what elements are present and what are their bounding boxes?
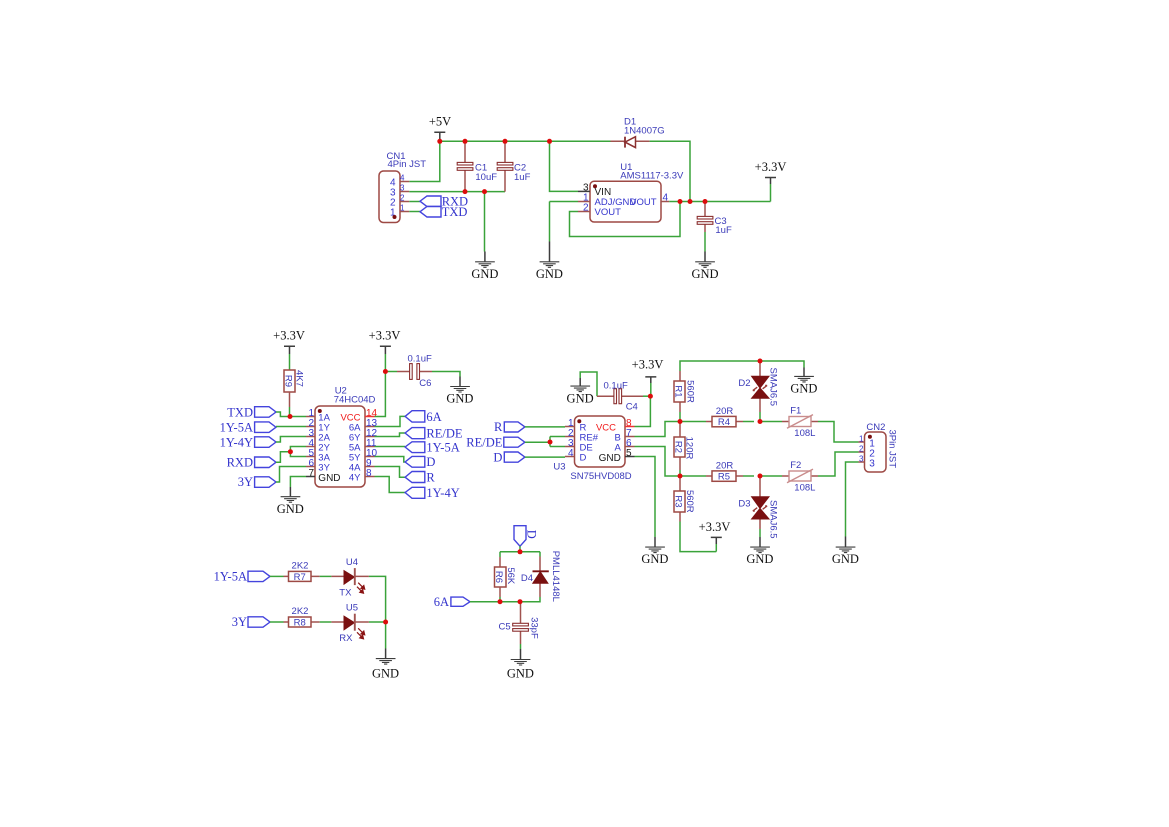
resistor R6 56K <box>493 557 516 602</box>
net flag RXD (U2) <box>227 456 276 470</box>
svg-text:R8: R8 <box>294 618 306 629</box>
resistor R2 120R <box>673 422 695 477</box>
ground U3 <box>641 537 668 566</box>
wire row1 D2 to F1 <box>760 421 782 423</box>
svg-text:C5: C5 <box>499 621 511 632</box>
net flag 1Y-4Y (U2 in) <box>220 435 276 449</box>
svg-text:+5V: +5V <box>429 115 451 129</box>
wire 1Y-4Y to pin3 <box>276 437 306 443</box>
ground U1 adj <box>536 242 563 282</box>
junction <box>758 419 763 424</box>
resistor R7 2K2 <box>284 561 320 583</box>
resistor R5 20R <box>706 460 754 482</box>
net flag 3Y (LED) <box>232 615 270 629</box>
capacitor C5 33pF <box>499 602 540 644</box>
diode D1 1N4007G <box>611 117 665 148</box>
capacitor C1 10uF <box>457 141 497 191</box>
junction <box>503 139 508 144</box>
wire F2 to CN2 pin2 <box>818 452 859 476</box>
wire row1 left <box>680 421 706 423</box>
svg-text:GND: GND <box>277 502 304 516</box>
svg-text:PMLL4148L: PMLL4148L <box>550 551 561 602</box>
junction <box>547 139 552 144</box>
wire U3 pin7 B to row1 <box>635 422 681 437</box>
svg-text:F1: F1 <box>790 406 801 417</box>
svg-text:1uF: 1uF <box>715 225 732 236</box>
svg-text:20R: 20R <box>716 460 734 471</box>
svg-text:560R: 560R <box>685 380 696 403</box>
net flag D (U3) <box>493 450 525 464</box>
svg-text:74HC04D: 74HC04D <box>334 395 376 406</box>
svg-text:D2: D2 <box>738 378 750 389</box>
fuse F2 108L <box>782 460 818 494</box>
wire C4 to VCC node <box>643 395 650 397</box>
svg-text:+3.3V: +3.3V <box>699 520 731 534</box>
ground under caps <box>471 192 498 281</box>
wire pin8 to 1Y-4Y flag <box>375 477 406 493</box>
net flag 1Y-5A (LED) <box>214 570 270 584</box>
wire pin4 to node <box>290 447 306 457</box>
svg-text:2: 2 <box>400 194 405 203</box>
wire row2 D3 to F2 <box>760 475 782 477</box>
svg-text:+3.3V: +3.3V <box>755 160 787 174</box>
svg-text:4K7: 4K7 <box>293 370 304 387</box>
svg-text:GND: GND <box>641 552 668 566</box>
svg-text:6A: 6A <box>426 410 441 424</box>
svg-text:GND: GND <box>318 473 340 484</box>
net flag TXD (U2) <box>227 405 276 419</box>
power +5V <box>429 115 451 142</box>
junction <box>383 369 388 374</box>
junction <box>548 440 553 445</box>
svg-text:GND: GND <box>832 552 859 566</box>
svg-text:TXD: TXD <box>442 205 468 219</box>
svg-text:1Y-5A: 1Y-5A <box>220 421 253 435</box>
net flag RE/DE (U2 out) <box>405 426 463 440</box>
ground C3 <box>691 232 718 281</box>
junction <box>288 449 293 454</box>
wire CN1 pin2 <box>409 201 420 203</box>
svg-text:0.1uF: 0.1uF <box>408 353 432 364</box>
svg-text:R: R <box>426 470 435 484</box>
junction <box>758 359 763 364</box>
svg-text:GND: GND <box>372 667 399 681</box>
net flag 1Y-5A (U2 out) <box>405 440 460 454</box>
net flag 1Y-4Y (U2 out) <box>405 486 460 500</box>
svg-text:D: D <box>493 450 502 464</box>
wire TXD to U2 pin1 <box>276 412 306 417</box>
svg-text:1Y-4Y: 1Y-4Y <box>220 435 253 449</box>
wire pin9 to R flag <box>375 467 406 478</box>
svg-text:4: 4 <box>568 448 574 459</box>
wire 6A to node <box>470 601 520 603</box>
svg-text:C6: C6 <box>419 378 431 389</box>
svg-text:GND: GND <box>446 392 473 406</box>
junction <box>758 474 763 479</box>
svg-text:1Y-5A: 1Y-5A <box>426 440 459 454</box>
wire VCC node down to pin8 <box>635 396 651 426</box>
svg-text:SN75HVD08D: SN75HVD08D <box>570 471 631 482</box>
svg-text:SMAJ6.5: SMAJ6.5 <box>768 368 779 407</box>
wire C5 to ground <box>520 644 522 649</box>
svg-text:1Y-5A: 1Y-5A <box>214 570 247 584</box>
svg-text:1: 1 <box>400 204 405 213</box>
wire CN1 pin4 to +5V <box>409 141 440 181</box>
svg-text:GND: GND <box>567 391 594 405</box>
svg-text:R7: R7 <box>294 572 306 583</box>
svg-text:120R: 120R <box>684 437 695 460</box>
svg-text:TXD: TXD <box>227 405 253 419</box>
junction <box>437 139 442 144</box>
svg-text:33pF: 33pF <box>528 617 539 639</box>
svg-text:+3.3V: +3.3V <box>632 358 664 372</box>
capacitor C4 0.1uF <box>597 380 643 412</box>
wire U1 output rail <box>669 201 770 203</box>
svg-text:GND: GND <box>507 667 534 681</box>
svg-text:108L: 108L <box>794 428 815 439</box>
net flag R (U2 out) <box>405 470 435 484</box>
svg-text:D: D <box>426 455 435 469</box>
resistor R8 2K2 <box>284 606 320 628</box>
wire pin13 to 6A flag <box>375 416 406 426</box>
junction <box>288 414 293 419</box>
resistor R3 560R <box>673 476 717 552</box>
wire F1 to CN2 pin1 <box>818 422 859 443</box>
svg-text:3Pin JST: 3Pin JST <box>887 430 898 469</box>
junction <box>678 474 683 479</box>
svg-text:1: 1 <box>859 435 864 444</box>
wire U3 pin5 to ground <box>635 457 656 538</box>
svg-text:8: 8 <box>366 468 372 479</box>
svg-text:1Y-4Y: 1Y-4Y <box>426 486 459 500</box>
net flag R (U3) <box>494 420 525 434</box>
power +3.3V at U3 <box>632 358 664 397</box>
svg-text:4: 4 <box>663 193 669 204</box>
LED U4 TX <box>331 557 369 599</box>
svg-text:2K2: 2K2 <box>292 561 309 572</box>
wire 1Y-5A to pin2 <box>276 426 306 428</box>
svg-text:560R: 560R <box>684 490 695 513</box>
ground C5 <box>507 649 534 681</box>
net flag TXD <box>420 205 467 219</box>
svg-text:R: R <box>494 420 503 434</box>
svg-text:10uF: 10uF <box>475 172 497 183</box>
wire U5 to ground <box>369 622 386 649</box>
svg-text:U3: U3 <box>553 461 565 472</box>
svg-text:3: 3 <box>400 184 405 193</box>
power +3.3V at R3 <box>699 520 731 552</box>
net flag 6A (U2 out) <box>405 410 442 424</box>
ground top right <box>790 368 817 396</box>
wire R6/D4 top rail <box>500 552 540 557</box>
wire CN1 pin1 <box>409 211 420 213</box>
junction <box>498 599 503 604</box>
svg-text:RE/DE: RE/DE <box>426 426 462 440</box>
wire CN1 pin3 to cap rail <box>409 191 505 193</box>
svg-text:D3: D3 <box>738 498 750 509</box>
capacitor C3 1uF <box>697 202 732 237</box>
svg-text:C4: C4 <box>626 401 638 412</box>
wire pin12 to RE/DE flag <box>375 433 406 437</box>
svg-text:0.1uF: 0.1uF <box>604 380 628 391</box>
resistor R9 4K7 <box>282 370 304 407</box>
wire ADJ/GND branch down <box>550 202 579 242</box>
net flag 1Y-5A (U2 in) <box>220 421 276 435</box>
svg-text:GND: GND <box>790 382 817 396</box>
net flag D (down) <box>514 526 538 547</box>
svg-text:5: 5 <box>626 448 632 459</box>
junction <box>482 189 487 194</box>
net flag 6A (bottom) <box>434 595 470 609</box>
svg-text:RE/DE: RE/DE <box>466 435 502 449</box>
svg-text:GND: GND <box>691 267 718 281</box>
svg-text:R6: R6 <box>493 571 504 583</box>
junction <box>648 394 653 399</box>
wire 1Y-5A to R7 <box>270 575 284 577</box>
capacitor C2 1uF <box>497 141 530 191</box>
svg-text:2K2: 2K2 <box>292 606 309 617</box>
svg-text:+3.3V: +3.3V <box>369 329 401 343</box>
svg-text:4Pin JST: 4Pin JST <box>388 159 427 170</box>
wire U3 pin6 A to row2 <box>635 447 681 477</box>
junction <box>518 549 523 554</box>
wire 3Y to pin6 <box>276 467 306 483</box>
wire row2 left <box>680 475 706 477</box>
wire D1 cathode to U1 output node <box>650 141 690 201</box>
ground C6 <box>446 377 473 406</box>
ground D3 <box>746 537 773 566</box>
svg-text:GND: GND <box>471 267 498 281</box>
wire D to U3 pin4 <box>525 456 565 459</box>
svg-text:U5: U5 <box>346 603 358 614</box>
svg-text:4Y: 4Y <box>349 473 361 484</box>
wire C6 to ground <box>432 372 460 377</box>
IC U2 74HC04D <box>306 386 378 487</box>
wire R to U3 pin1 <box>525 426 565 428</box>
wire RE/DE split to pins 2,3 <box>525 437 565 447</box>
svg-text:7: 7 <box>308 468 314 479</box>
wire +5V rail <box>440 140 611 142</box>
svg-text:+3.3V: +3.3V <box>273 329 305 343</box>
svg-text:GND: GND <box>599 453 621 464</box>
junction <box>678 419 683 424</box>
svg-text:D: D <box>580 453 587 464</box>
svg-text:6A: 6A <box>434 595 449 609</box>
wire VCC drop to pin14 <box>375 372 386 417</box>
svg-text:20R: 20R <box>716 406 734 417</box>
svg-text:R4: R4 <box>718 417 730 428</box>
svg-text:3: 3 <box>859 455 864 464</box>
svg-text:RX: RX <box>339 633 353 644</box>
junction <box>518 599 523 604</box>
net flag RE/DE (U3) <box>466 435 525 449</box>
svg-text:R3: R3 <box>673 495 684 507</box>
svg-text:D4: D4 <box>521 573 533 584</box>
junction <box>463 189 468 194</box>
wire D flag to node <box>519 546 521 552</box>
svg-text:R1: R1 <box>673 385 684 397</box>
wire VIN branch <box>550 141 579 191</box>
IC U3 SN75HVD08D <box>553 416 634 482</box>
svg-text:3Y: 3Y <box>318 463 330 474</box>
junction <box>383 620 388 625</box>
svg-text:U4: U4 <box>346 557 358 568</box>
svg-text:R9: R9 <box>282 375 293 387</box>
power +3.3V main <box>755 160 787 202</box>
junction <box>463 139 468 144</box>
junction <box>688 199 693 204</box>
svg-text:2: 2 <box>859 445 864 454</box>
resistor R4 20R <box>706 406 754 428</box>
resistor R1 560R <box>673 371 696 422</box>
svg-text:3Y: 3Y <box>232 615 247 629</box>
svg-text:CN2: CN2 <box>866 422 885 433</box>
junction <box>678 199 683 204</box>
svg-text:TX: TX <box>339 588 352 599</box>
svg-text:F2: F2 <box>790 460 801 471</box>
ground CN2 <box>832 537 859 567</box>
svg-text:RXD: RXD <box>227 456 253 470</box>
net flag 3Y (U2 in) <box>238 475 276 489</box>
wire R7 to U4 <box>320 575 332 577</box>
svg-text:VCC: VCC <box>596 423 616 434</box>
svg-text:VOUT: VOUT <box>630 197 657 208</box>
ground C4 <box>567 372 597 405</box>
wire pin10 to D flag <box>375 457 406 463</box>
TVS diode D3 SMAJ6.5 <box>738 476 778 539</box>
wire top rail R1/D2/GND <box>680 361 804 371</box>
capacitor C6 0.1uF <box>385 353 432 389</box>
TVS diode D2 SMAJ6.5 <box>738 361 778 422</box>
LED U5 RX <box>331 603 369 645</box>
svg-text:R2: R2 <box>673 441 684 453</box>
svg-text:VOUT: VOUT <box>595 207 622 218</box>
power +3.3V at U2 VCC <box>369 329 401 372</box>
svg-text:R5: R5 <box>718 472 730 483</box>
wire CN2 pin3 to ground <box>846 462 859 537</box>
fuse F1 108L <box>782 406 818 440</box>
wire 3Y to R8 <box>270 621 284 623</box>
svg-text:1uF: 1uF <box>514 172 531 183</box>
svg-text:4: 4 <box>400 174 405 183</box>
svg-text:2: 2 <box>583 203 589 214</box>
regulator U1 AMS1117-3.3V <box>578 162 684 222</box>
svg-text:AMS1117-3.3V: AMS1117-3.3V <box>620 171 684 182</box>
svg-text:1N4007G: 1N4007G <box>624 125 665 136</box>
diode D4 PMLL4148L <box>520 551 561 602</box>
svg-text:56K: 56K <box>505 567 516 585</box>
wire U4 to down rail <box>369 576 386 622</box>
ground LED <box>372 649 399 681</box>
wire R9 to pin1 <box>289 407 291 417</box>
svg-text:D: D <box>524 530 538 539</box>
wire pin7 to ground <box>290 477 306 488</box>
wire R8 to U5 <box>320 621 332 623</box>
svg-text:108L: 108L <box>794 483 815 494</box>
ground U2 <box>277 487 304 516</box>
connector CN1 4Pin JST <box>379 151 426 222</box>
junction <box>703 199 708 204</box>
svg-text:A: A <box>614 443 621 454</box>
wire pin11 to 1Y-5A flag <box>375 446 406 448</box>
wire U1 pin2 feedback loop <box>570 202 681 237</box>
svg-text:3: 3 <box>869 459 875 470</box>
svg-text:3Y: 3Y <box>238 475 253 489</box>
connector CN2 3Pin JST <box>859 422 898 472</box>
svg-text:SMAJ6.5: SMAJ6.5 <box>768 500 779 539</box>
net flag D (U2 out) <box>405 455 435 469</box>
net flag RXD <box>420 195 468 209</box>
svg-text:GND: GND <box>746 552 773 566</box>
wire RXD to node <box>276 452 290 463</box>
power +3.3V at R9 <box>273 329 305 370</box>
svg-text:GND: GND <box>536 267 563 281</box>
